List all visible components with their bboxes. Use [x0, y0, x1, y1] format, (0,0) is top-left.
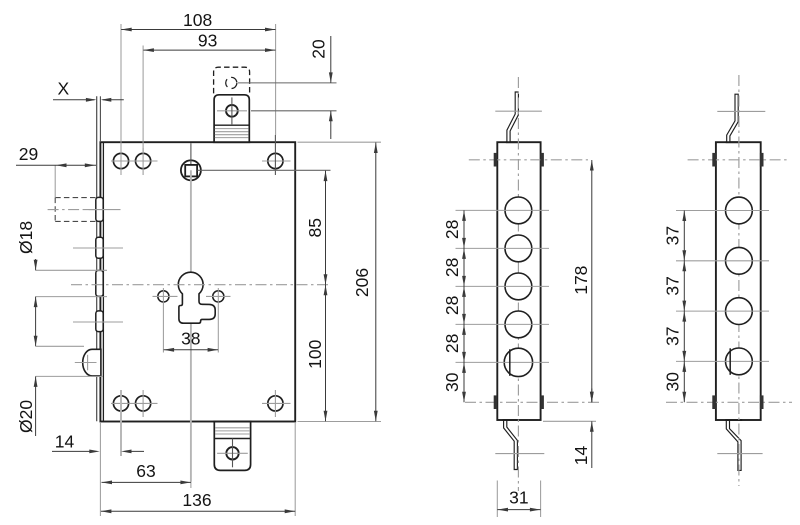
view-2 top rod	[507, 92, 519, 142]
spindle hole centerline vertical	[190, 143, 192, 482]
view-3 hole 1	[676, 197, 769, 224]
svg-text:14: 14	[55, 432, 75, 452]
view-2 hole 4	[456, 311, 550, 338]
extension lines Ø20	[36, 346, 103, 376]
svg-text:63: 63	[136, 461, 155, 481]
svg-text:30: 30	[442, 372, 462, 392]
view-3 hole 4	[676, 348, 769, 375]
svg-text:37: 37	[662, 226, 682, 245]
view-3 strip edge restroke	[725, 142, 742, 420]
round latch bolt (Ø20, side view)	[75, 349, 101, 376]
screw hole top-right	[268, 153, 283, 168]
dimension 93	[143, 30, 275, 52]
keyhole pin left	[153, 291, 178, 302]
svg-text:136: 136	[182, 490, 211, 510]
extension lines Ø18	[36, 270, 107, 296]
svg-text:100: 100	[305, 339, 325, 368]
horizontal centerline	[71, 284, 331, 286]
view-2 top tick line	[495, 110, 542, 112]
svg-text:37: 37	[662, 326, 682, 345]
view-2 bottom tick line	[495, 453, 544, 455]
view-3 top tick line	[717, 110, 765, 112]
screw hole bottom-left B	[136, 396, 151, 411]
top bracket (dashed position)	[214, 67, 250, 93]
extension lines bottom dims	[100, 390, 295, 516]
top bracket dashed hole	[226, 77, 237, 88]
pin 4 centerline	[73, 321, 123, 323]
deadbolt pin 4 (side view)	[96, 311, 103, 332]
svg-text:28: 28	[442, 296, 462, 315]
faceplate view-3 outline	[716, 142, 761, 420]
keyhole pin right	[206, 291, 231, 302]
svg-text:93: 93	[198, 30, 217, 50]
svg-text:206: 206	[352, 268, 372, 297]
view-3 edge pins	[712, 153, 763, 409]
bottom bracket hole	[217, 439, 248, 468]
screw hole top-left B	[136, 153, 151, 168]
dimension 136	[101, 490, 295, 513]
view-2 strip edge restroke	[503, 142, 520, 420]
svg-text:Ø20: Ø20	[16, 400, 36, 433]
screw hole top-left A	[113, 153, 128, 168]
view-2 hole 1	[456, 197, 550, 224]
svg-text:28: 28	[442, 258, 462, 277]
pin 2 centerline	[73, 247, 123, 249]
extension lines top dims	[121, 24, 276, 175]
extension lines dim 38	[163, 288, 218, 353]
top bracket hole	[217, 97, 247, 124]
dimension 100	[305, 285, 327, 422]
view-2 dimension chain 28/28/28/28/30	[442, 210, 466, 402]
svg-text:31: 31	[509, 487, 528, 507]
view-2 top centerline	[469, 159, 588, 161]
deadbolt pin 2 (side view)	[96, 237, 103, 258]
dimension 20	[309, 36, 333, 139]
top bracket (solid)	[213, 95, 250, 142]
view-3 top centerline	[688, 159, 788, 161]
view-3 hole 2	[676, 247, 769, 274]
deadbolt pin 1 (side view)	[96, 197, 103, 221]
extended bolt (dashed projection)	[48, 198, 97, 222]
svg-text:85: 85	[305, 218, 325, 237]
dimension 63	[102, 461, 191, 484]
dimension 29	[16, 144, 96, 167]
dimension Ø18	[16, 221, 38, 346]
view-2 dimension 14	[571, 389, 594, 469]
svg-text:38: 38	[181, 329, 200, 349]
dimension 14 left	[52, 432, 144, 454]
bottom bracket	[213, 421, 251, 470]
svg-text:28: 28	[442, 220, 462, 239]
view-3 top rod	[727, 94, 739, 142]
view-2 edge pins	[494, 153, 544, 409]
svg-text:37: 37	[662, 276, 682, 295]
svg-text:Ø18: Ø18	[16, 221, 36, 254]
svg-text:20: 20	[309, 39, 329, 59]
deadbolt pin 3 (side view)	[96, 270, 103, 296]
view-3 hole 3	[676, 298, 769, 325]
svg-text:14: 14	[571, 446, 591, 466]
view-2 hole 3	[456, 273, 550, 300]
view-2 bottom rod	[504, 420, 518, 469]
dimension 108	[121, 10, 275, 32]
view-3 bottom tick line	[717, 453, 762, 455]
lock body outline	[100, 142, 295, 421]
view-3 bottom centerline	[666, 401, 792, 403]
pin 1 centerline	[85, 209, 121, 211]
view-3 dimension chain 37/37/37/30	[662, 211, 686, 403]
dimension 206	[352, 143, 378, 422]
keyhole	[178, 272, 215, 323]
dimension 85	[305, 171, 327, 285]
svg-text:108: 108	[183, 10, 212, 30]
spindle hole (square in circle)	[181, 160, 201, 180]
dimension X	[53, 79, 124, 102]
svg-text:30: 30	[662, 372, 682, 392]
view-2 bottom centerline	[465, 401, 600, 403]
view-2 vertical centerline	[517, 77, 519, 491]
view-2 dimension 31	[497, 481, 540, 518]
view-2 extension line bottom	[543, 420, 596, 422]
screw hole bottom-right	[268, 396, 283, 411]
extension lines dim 20	[238, 83, 337, 111]
extension lines right dims	[198, 142, 382, 421]
view-3 bottom rod	[726, 420, 741, 470]
extension line dim 29	[54, 165, 56, 197]
svg-text:178: 178	[571, 266, 591, 295]
svg-text:29: 29	[19, 144, 38, 164]
screw holes crosshairs	[111, 148, 291, 417]
dimension Ø20	[16, 336, 38, 436]
faceplate view-2 outline	[497, 142, 540, 420]
view-2 dimension 178	[571, 160, 594, 402]
svg-text:28: 28	[442, 334, 462, 353]
faceplate edge (side strip)	[97, 96, 101, 421]
view-3 vertical centerline	[738, 75, 740, 486]
svg-text:X: X	[58, 79, 70, 99]
view-2 hole 2	[456, 235, 550, 262]
screw hole bottom-left A	[113, 396, 128, 411]
view-2 hole 5	[456, 348, 550, 376]
dimension 38	[164, 329, 219, 352]
